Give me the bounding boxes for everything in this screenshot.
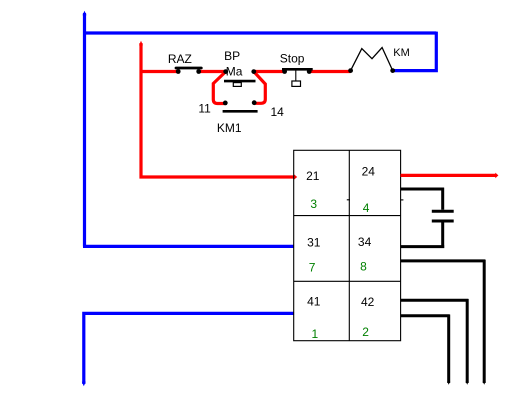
svg-text:8: 8 [360,260,367,274]
label KM [393,47,410,59]
svg-text:21: 21 [306,169,320,183]
node: blue bottom wire end tip [82,382,86,386]
contact BP Ma (NO push button bar) [224,80,256,83]
pin number 14 [271,105,285,119]
svg-text:3: 3 [310,197,317,211]
wire: black loop from terminal 24 to capacitor [401,188,445,210]
pin number 8 (green) [360,260,367,274]
wire: red branch right of KM1 holding contact [254,72,265,104]
svg-text:24: 24 [362,165,376,179]
pin tick on right edge [401,199,404,201]
pin tick on center divider [347,199,350,201]
label BP [224,49,240,63]
contact RAZ (NC contact bar) [176,67,201,70]
wire: top blue rail to KM coil (horizontal, right drop) [83,32,438,71]
node: RAZ left terminal dot [176,69,181,74]
node: Stop left terminal dot [282,69,287,74]
svg-text:41: 41 [307,295,321,309]
capacitor C1 top plate [432,210,454,213]
relay block row divider 1 [294,215,401,217]
node: KM1 lower-right terminal dot (pin 14) [252,100,257,105]
pin number 7 (green) [309,261,316,275]
svg-text:7: 7 [309,261,316,275]
node: wire end tip 3 [447,381,450,384]
svg-text:14: 14 [271,105,285,119]
svg-text:Ma: Ma [226,64,243,78]
wire: black output from terminal 42 (lower) [401,315,450,384]
svg-text:BP: BP [224,49,240,63]
node: coil KM left terminal dot [348,68,353,73]
svg-text:42: 42 [361,295,375,309]
node: BP top-right junction dot [251,69,256,74]
svg-text:KM1: KM1 [217,121,242,135]
pin number 21 [306,169,320,183]
contact KM1 (NO holding contact bar) [223,110,258,113]
node: RAZ right terminal dot [196,69,201,74]
node: red feeder top tip [139,41,143,45]
node: wire end tip 2 [466,381,469,384]
push button actuator stem of Stop [295,71,297,82]
node: Stop right terminal dot [307,69,312,74]
capacitor C1 bottom plate [432,220,454,223]
node: red output end tip [495,173,498,179]
label RAZ [168,52,192,66]
wire: black return from capacitor to terminal 34 [401,223,445,248]
wire: black output from terminal 42 (upper) [401,299,469,383]
relay block row divider 2 [294,280,401,282]
wire: red vertical feeder to terminal 21 [139,43,294,177]
svg-text:34: 34 [358,235,372,249]
wire: red segment RAZ to BP [199,70,226,73]
svg-text:2: 2 [362,325,369,339]
pin number 31 [307,235,321,249]
pin number 1 (green) [312,327,319,341]
node: KM1 lower-left terminal dot (pin 11) [223,101,228,106]
pin number 24 [362,165,376,179]
wire: red segment BP to Stop [254,70,285,73]
label Stop [280,52,305,66]
push button actuator square of Stop [292,81,301,86]
push button actuator square of BP [233,83,241,87]
pin number 11 [198,101,211,115]
svg-text:Stop: Stop [280,52,305,66]
label Ma [226,64,243,78]
node: coil KM right terminal dot [390,68,395,73]
contact Stop (NC push button bar) [282,68,313,71]
wire: bottom blue feed to terminal 41 (vertical + horizontal) [82,313,293,384]
wire: black output from terminal 34 (lower) [401,260,486,383]
svg-text:KM: KM [393,47,410,59]
wire: red output from terminal 24 [401,174,496,177]
node: BP top-left junction dot [223,69,228,74]
svg-text:RAZ: RAZ [168,52,192,66]
wire: left blue supply rail (vertical) with branch to terminal 31 [83,13,294,246]
node: wire end tip 1 [483,381,486,384]
label KM1 [217,121,242,135]
pin number 42 [361,295,375,309]
relay contact block U1 (terminal box outline) [294,150,401,340]
coil KM (zigzag operating coil) [351,48,393,71]
svg-text:11: 11 [198,101,211,115]
wire: red branch left of KM1 holding contact [213,72,225,104]
svg-text:31: 31 [307,235,321,249]
svg-text:4: 4 [363,201,370,215]
pin number 41 [307,295,321,309]
pin number 34 [358,235,372,249]
svg-text:1: 1 [312,327,319,341]
node: red wire arrow at terminal 21 [294,174,297,180]
pin number 2 (green) [362,325,369,339]
relay block center divider [348,150,350,340]
pin number 3 (green) [310,197,317,211]
wire: red control line segment feeder to RAZ [141,70,178,73]
pin number 4 (green) [363,201,370,215]
node: blue rail top connection tip [83,11,87,15]
wire: red segment Stop to coil KM [309,70,350,73]
